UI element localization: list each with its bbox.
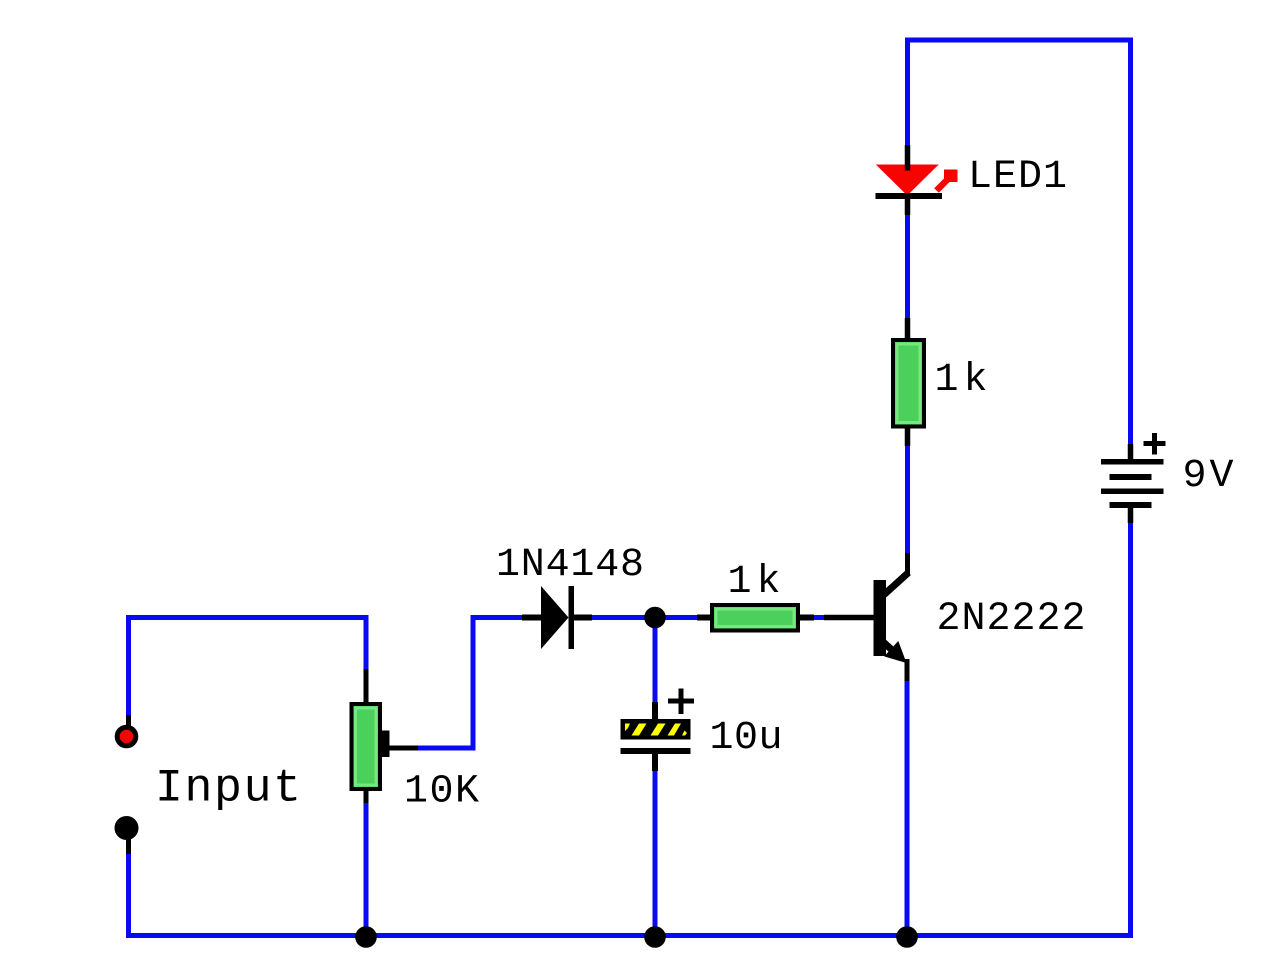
battery B1 plate 1 long	[1101, 459, 1164, 465]
resistor R3 1k right lead	[798, 615, 814, 621]
battery B1 plate 3 long	[1101, 489, 1164, 495]
potentiometer R1 bottom lead	[364, 789, 369, 803]
diode D1 cathode bar	[569, 586, 575, 649]
resistor R3 1k body	[712, 605, 798, 631]
LED LED1 bottom lead	[905, 197, 911, 215]
battery B1 plate 2 short	[1110, 474, 1152, 480]
diode D1 triangle	[541, 586, 569, 649]
transistor Q1 emitter with arrow	[880, 639, 901, 658]
capacitor C1 plus sign	[668, 689, 694, 715]
wire capacitor to ground rail	[653, 770, 658, 934]
battery B1 plus sign	[1144, 433, 1166, 455]
LED LED1 anode triangle	[876, 165, 939, 196]
node A junction dot	[644, 607, 666, 629]
wire pot wiper to diode	[417, 618, 524, 749]
wire R2 to Q1 collector	[905, 445, 910, 555]
svg-text:10u: 10u	[710, 716, 783, 761]
svg-text:1N4148: 1N4148	[496, 543, 644, 588]
svg-text:LED1: LED1	[968, 155, 1067, 200]
svg-text:10K: 10K	[404, 770, 479, 815]
wire input plus to potentiometer top	[129, 618, 367, 717]
wire top rail from LED branch to battery branch	[908, 40, 1131, 445]
potentiometer R1 wiper tab	[380, 731, 390, 758]
capacitor C1 plus lead	[652, 702, 658, 720]
capacitor C1 negative plate	[621, 748, 691, 754]
wire R3 to Q1 base	[813, 615, 827, 620]
junction dot emitter bottom	[896, 926, 918, 948]
battery B1 minus lead	[1128, 507, 1134, 523]
wire emitter to ground rail	[905, 680, 910, 934]
wire diode to node A and R3	[591, 615, 698, 620]
battery B1 plus lead	[1128, 444, 1134, 460]
transistor Q1 base bar	[874, 580, 887, 656]
input terminal minus lead	[126, 839, 131, 854]
svg-text:Input: Input	[155, 762, 301, 815]
capacitor C1 minus lead	[652, 753, 658, 771]
svg-text:2N2222: 2N2222	[937, 597, 1086, 642]
wire ground rail: input bottom, pot, cap, emitter, battery minus	[129, 522, 1131, 936]
LED LED1 cathode bar	[876, 193, 943, 199]
potentiometer R1 wiper lead	[389, 746, 418, 751]
wire LED to R2	[905, 214, 910, 320]
transistor Q1 collector lead	[905, 553, 910, 576]
resistor R2 1k top lead	[905, 318, 911, 340]
potentiometer R1 body	[352, 704, 381, 789]
LED LED1 light arrow	[937, 180, 948, 191]
junction dot pot bottom	[355, 926, 377, 948]
junction dot cap bottom	[644, 926, 666, 948]
diode D1 left lead	[522, 615, 543, 621]
transistor Q1 base lead	[824, 615, 874, 621]
battery B1 plate 4 short	[1110, 502, 1152, 508]
input terminal minus (black)	[115, 816, 139, 840]
capacitor C1 positive plate with stripes	[621, 719, 691, 740]
LED LED1 top lead	[905, 145, 911, 171]
input terminal plus (red)	[117, 727, 136, 746]
resistor R3 1k left lead	[697, 615, 712, 621]
resistor R2 1k body	[893, 340, 924, 427]
resistor R2 1k bottom lead	[905, 427, 911, 446]
diode D1 right lead	[573, 615, 592, 621]
potentiometer R1 top lead	[364, 669, 369, 704]
wire node A down to capacitor	[653, 618, 658, 705]
input terminal plus lead	[126, 715, 131, 727]
wire potentiometer bottom to ground rail	[364, 801, 369, 934]
